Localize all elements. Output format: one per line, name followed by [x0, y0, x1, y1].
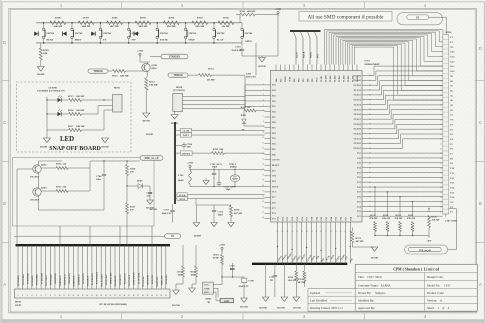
IC U701 top pins: [276, 65, 359, 83]
svg-text:TXD: TXD: [246, 74, 251, 76]
svg-text:D702: D702: [137, 180, 143, 183]
wire drops: bus to MT03 with net labels: [18, 245, 168, 289]
svg-text:PLD17: PLD17: [354, 118, 362, 121]
svg-text:SNAP OFF BOARD: SNAP OFF BOARD: [49, 146, 101, 152]
svg-text:CPM ( Shenzhen ) Li mi t ed: CPM ( Shenzhen ) Li mi t ed: [393, 268, 440, 272]
connector M705: [103, 86, 122, 112]
svg-text:INT: INT: [317, 53, 319, 58]
svg-text:Title: C017 MCU: Title: C017 MCU: [358, 275, 383, 279]
svg-text:A: A: [3, 282, 6, 287]
svg-text:P51: P51: [278, 217, 280, 220]
svg-text:28: 28: [142, 295, 144, 297]
wire KBD collector rail: [17, 161, 140, 226]
svg-text:560 MF: 560 MF: [76, 109, 85, 112]
svg-text:13G: 13G: [450, 56, 454, 59]
node TRIG/IN pill (right): [168, 73, 188, 77]
wire/net INT: [315, 32, 320, 65]
resistor R707 6K8 MF: [78, 17, 94, 29]
svg-text:SW703: SW703: [188, 32, 196, 35]
svg-text:SQSO: SQSO: [310, 52, 312, 58]
diode (key matrix) D704: [63, 32, 67, 36]
svg-text:PLD13: PLD13: [354, 99, 362, 102]
bus bar (VFD signals): [252, 263, 347, 265]
power +5VD (top): [275, 8, 281, 56]
ground DGND (MT03 right): [172, 284, 180, 307]
resistor R702 1K MF: [218, 17, 234, 29]
svg-text:SW706: SW706: [103, 32, 111, 35]
svg-text:IRINLINE: IRINLINE: [157, 276, 159, 287]
svg-text:11G: 11G: [450, 65, 454, 68]
sub-board outline (KBD): [13, 158, 155, 227]
svg-text:GRID5SEG: GRID5SEG: [74, 275, 76, 286]
IC U701 M38K07M8FP body: [271, 71, 363, 223]
svg-text:SENS: SENS: [179, 198, 186, 201]
svg-text:47K MF: 47K MF: [370, 218, 379, 220]
svg-text:R715: R715: [68, 95, 74, 98]
svg-text:7: 7: [263, 116, 264, 118]
svg-text:L701: L701: [178, 174, 184, 177]
svg-text:DGND: DGND: [293, 307, 301, 310]
svg-text:SW702: SW702: [217, 32, 225, 35]
wire Q703 emitter to rail: [39, 185, 104, 210]
svg-text:4: 4: [441, 51, 442, 53]
svg-text:KBD_on_off: KBD_on_off: [145, 157, 159, 160]
svg-text:29: 29: [440, 173, 442, 175]
svg-text:XLAT: XLAT: [295, 51, 298, 58]
svg-text:1: 1: [18, 295, 19, 297]
svg-text:25: 25: [128, 295, 130, 297]
svg-text:2: 2: [441, 42, 442, 44]
svg-text:PLD21: PLD21: [354, 137, 362, 140]
svg-text:8: 8: [263, 121, 264, 123]
svg-text:R710: R710: [214, 255, 220, 257]
capacitor C107 1NFD: [445, 214, 457, 223]
transistor Q702 2SC2859: [30, 164, 47, 179]
svg-text:37: 37: [325, 231, 327, 233]
svg-text:GNDPOWER: GNDPOWER: [134, 272, 136, 285]
svg-text:VCC: VCC: [317, 77, 319, 82]
svg-text:TRIG/IN: TRIG/IN: [173, 74, 182, 77]
capacitor C710 22u: [147, 186, 153, 200]
svg-text:IR: IR: [208, 301, 211, 304]
svg-text:PLD16: PLD16: [354, 113, 362, 116]
title block table: [308, 264, 477, 311]
svg-text:VFD5GRID: VFD5GRID: [37, 274, 39, 286]
svg-text:4K7 MF: 4K7 MF: [110, 25, 119, 28]
resistor R729 100K: [191, 245, 198, 284]
svg-text:M38K07M8FP: M38K07M8FP: [365, 63, 381, 66]
svg-text:39pF: 39pF: [212, 166, 218, 169]
wire fan: IC right pins to MT01: [368, 66, 443, 216]
svg-text:RESET: RESET: [272, 164, 280, 167]
svg-text:P86: P86: [308, 79, 310, 82]
svg-text:FF: FF: [103, 38, 107, 41]
svg-text:BLCKLGHT: BLCKLGHT: [101, 274, 103, 287]
svg-text:DGND: DGND: [371, 257, 379, 260]
svg-text:STANDBY: STANDBY: [169, 56, 181, 59]
svg-text:1K MF: 1K MF: [222, 25, 230, 28]
label LED SNAP OFF BOARD: [49, 136, 101, 152]
capacitor C706 10N: [175, 142, 193, 148]
svg-text:R716: R716: [68, 109, 74, 112]
svg-text:34: 34: [440, 197, 442, 199]
svg-text:+5VD: +5VD: [187, 162, 193, 165]
svg-text:-30V: -30V: [427, 240, 432, 243]
svg-text:Approved By:: Approved By:: [358, 306, 375, 310]
resistor R714 10K MF: [145, 76, 159, 113]
svg-text:SW701: SW701: [245, 32, 253, 35]
svg-text:5: 5: [441, 56, 442, 58]
node IRIN label: [220, 298, 233, 303]
power +5VD (osc): [187, 162, 193, 171]
wire drops: IC bottom pins to bus: [277, 228, 354, 264]
wire STANDBY to Q701: [150, 56, 161, 58]
svg-text:P61: P61: [294, 79, 296, 82]
svg-text:NF: NF: [242, 129, 246, 132]
svg-text:30: 30: [291, 231, 293, 233]
svg-text:34: 34: [311, 231, 313, 233]
svg-text:12: 12: [68, 295, 70, 297]
svg-text:PLD02: PLD02: [335, 76, 337, 82]
svg-text:PLD07: PLD07: [357, 75, 359, 82]
resistor R706 4K7 MF: [107, 17, 123, 29]
svg-text:4K7 MF: 4K7 MF: [356, 241, 365, 243]
svg-text:C: C: [3, 120, 6, 125]
svg-text:PLD19: PLD19: [354, 128, 362, 131]
svg-text:C715: C715: [269, 277, 275, 279]
ground DGND (C710): [146, 200, 154, 210]
switch SW706 FF: [99, 22, 111, 44]
switch SW706 NEXT: [42, 22, 54, 44]
svg-text:GRID3SEG: GRID3SEG: [64, 274, 66, 285]
svg-text:Design Code:: Design Code:: [427, 275, 444, 279]
connector M704 (TO M705): [173, 86, 185, 111]
wire drops below bus to grounds: [266, 264, 297, 297]
svg-text:1: 1: [441, 37, 442, 39]
transistor Q703 2SC2859: [30, 187, 47, 202]
svg-text:NC: NC: [450, 119, 454, 122]
svg-text:P53: P53: [287, 217, 289, 220]
resistor R720 4K7 MF: [196, 199, 243, 223]
svg-text:5: 5: [36, 295, 37, 297]
svg-text:P60: P60: [299, 79, 301, 82]
LED snap-off board (dashed outline): [17, 82, 132, 152]
svg-text:SQCK: SQCK: [303, 51, 305, 58]
svg-text:4MHZ: 4MHZ: [230, 166, 237, 169]
svg-text:32: 32: [160, 295, 162, 297]
node P1 oval (net flag): [397, 13, 446, 35]
svg-text:Sheet: 1 of 4: Sheet: 1 of 4: [427, 306, 449, 310]
svg-text:R723: R723: [383, 215, 389, 217]
svg-text:21: 21: [110, 295, 112, 297]
resistor R704 2K2 MF: [163, 17, 179, 29]
ground DGND (R709): [37, 67, 44, 77]
svg-text:17: 17: [262, 169, 264, 171]
svg-text:PLD11: PLD11: [354, 89, 362, 92]
title block row: Approved By / Sheet 1 of 4: [358, 306, 449, 310]
svg-text:Last Modified: Last Modified: [310, 299, 328, 303]
svg-text:9: 9: [263, 126, 264, 128]
svg-text:IRIN: IRIN: [224, 301, 229, 303]
svg-text:XIN: XIN: [272, 180, 277, 183]
svg-text:25: 25: [440, 153, 442, 155]
resistor R719 3K3 MF: [288, 271, 298, 297]
svg-text:GRID1SEG: GRID1SEG: [55, 273, 57, 284]
svg-text:PLD15: PLD15: [354, 108, 362, 111]
svg-text:P20: P20: [350, 217, 352, 220]
svg-text:27: 27: [440, 163, 442, 165]
diode (key matrix) D705: [91, 32, 95, 36]
svg-text:14: 14: [77, 295, 79, 297]
svg-text:RESET: RESET: [182, 152, 191, 155]
svg-text:R706: R706: [112, 17, 118, 20]
svg-text:PLD10: PLD10: [354, 84, 362, 87]
svg-text:STOP: STOP: [188, 38, 195, 41]
svg-text:VFD3GRID: VFD3GRID: [27, 273, 29, 285]
resistor R730 470: [126, 160, 137, 183]
resistor R731 470: [126, 183, 137, 226]
svg-text:DATA1SIG: DATA1SIG: [142, 276, 145, 287]
node bus bar (XLAT group): [290, 30, 321, 32]
svg-text:SEG11OUT: SEG11OUT: [124, 273, 126, 285]
svg-text:29: 29: [146, 295, 148, 297]
resistor R711 080: [200, 148, 265, 155]
svg-text:AVSS: AVSS: [289, 76, 292, 82]
svg-text:10: 10: [262, 132, 264, 134]
switch SW702 PLAY: [213, 22, 225, 44]
wire M704 pins to IC: [183, 97, 265, 109]
diode D702: [127, 180, 150, 189]
svg-text:28: 28: [282, 231, 284, 233]
svg-text:R713: R713: [112, 75, 118, 78]
svg-text:P11: P11: [316, 217, 318, 220]
svg-text:14: 14: [262, 153, 264, 155]
svg-text:28: 28: [440, 168, 442, 170]
node P1 pill (bottom): [165, 234, 181, 239]
zone tick marks left/right: [2, 81, 484, 243]
svg-text:STANDBY & POWER-ON: STANDBY & POWER-ON: [37, 90, 65, 93]
svg-text:11: 11: [63, 295, 65, 297]
svg-text:DGND: DGND: [194, 234, 201, 237]
svg-text:1G: 1G: [450, 114, 453, 117]
svg-text:VCC5VOLT: VCC5VOLT: [129, 274, 131, 286]
capacitor C713 10uF/6.3V: [162, 204, 175, 223]
svg-text:RSTLINE: RSTLINE: [152, 274, 154, 284]
svg-text:9: 9: [55, 295, 56, 297]
ground DGND + wire row y232: [14, 223, 201, 238]
svg-text:2K2 MF: 2K2 MF: [167, 25, 176, 28]
svg-text:12: 12: [262, 142, 264, 144]
zone letters right: [479, 46, 482, 287]
svg-text:All use SMD component if possi: All use SMD component if possible: [307, 14, 384, 21]
svg-text:DGND: DGND: [146, 207, 154, 210]
svg-text:NC: NC: [450, 201, 454, 204]
ground DGND (M704): [171, 111, 178, 125]
svg-text:D: D: [479, 46, 482, 51]
svg-text:31: 31: [296, 231, 298, 233]
svg-text:P13: P13: [326, 217, 328, 220]
svg-text:27: 27: [277, 231, 279, 233]
svg-text:30: 30: [151, 295, 153, 297]
resistor R701 683 MF: [236, 10, 278, 23]
svg-text:47K MF: 47K MF: [395, 218, 404, 220]
svg-text:P56: P56: [302, 217, 304, 220]
svg-text:VREF: VREF: [285, 75, 287, 82]
svg-text:1K5 MF: 1K5 MF: [195, 25, 204, 28]
svg-text:P12: P12: [321, 217, 323, 220]
svg-text:36: 36: [320, 231, 322, 233]
svg-text:20: 20: [262, 185, 264, 187]
svg-text:GRID4SEG: GRID4SEG: [69, 273, 71, 284]
svg-text:VFD8GRID: VFD8GRID: [51, 274, 53, 286]
capacitor C708 47uF/6.3V: [221, 276, 254, 298]
svg-text:2G: 2G: [450, 109, 453, 112]
svg-text:FW: FW: [132, 38, 137, 41]
svg-text:SCLK: SCLK: [179, 194, 186, 197]
resistor R703 1K5 MF: [192, 17, 208, 29]
IC U701 bottom pins: [278, 216, 353, 227]
wire: key matrix bottom rail: [36, 42, 242, 44]
svg-text:11: 11: [262, 137, 264, 139]
svg-text:VCC: VCC: [204, 284, 209, 287]
svg-text:PLD04: PLD04: [344, 75, 346, 82]
power +5VD (IR): [219, 244, 225, 254]
svg-text:16: 16: [262, 164, 264, 166]
svg-text:47K MF: 47K MF: [432, 220, 441, 222]
svg-text:DGND: DGND: [143, 120, 150, 123]
svg-text:10K MF: 10K MF: [120, 75, 129, 78]
svg-text:R707: R707: [83, 17, 89, 20]
svg-text:8050: 8050: [152, 67, 158, 70]
svg-text:3K3 MF: 3K3 MF: [298, 282, 307, 284]
LED D702 symbol: [58, 109, 63, 116]
net label SENS: [175, 197, 265, 201]
svg-text:R708: R708: [55, 17, 61, 20]
svg-text:21: 21: [262, 190, 264, 192]
ground DGND (LED board left): [40, 136, 51, 149]
svg-text:SEG10OUT: SEG10OUT: [120, 274, 122, 286]
svg-text:TRIG/IN: TRIG/IN: [93, 70, 102, 73]
ground DGND (R714): [143, 113, 150, 123]
svg-text:LED: LED: [60, 136, 74, 143]
switch SW701 / OPEN: [241, 23, 253, 46]
svg-text:MT01: MT01: [446, 32, 453, 34]
svg-text:DATA/TO: DATA/TO: [246, 76, 256, 79]
svg-text:30: 30: [440, 177, 442, 179]
svg-text:VFD_on_off: VFD_on_off: [419, 250, 431, 252]
resistors R722-R725 47K MF: [370, 186, 430, 236]
svg-text:32: 32: [440, 187, 442, 189]
svg-text:GRID2SEG: GRID2SEG: [60, 275, 62, 286]
svg-text:SEG12KEY: SEG12KEY: [83, 273, 85, 285]
svg-text:35: 35: [440, 202, 442, 204]
svg-text:DGND: DGND: [146, 133, 153, 136]
zone letters left: [3, 40, 6, 287]
node STANDBY pill: [161, 54, 188, 59]
svg-text:R701 683 MF: R701 683 MF: [240, 10, 256, 13]
bus bar (MT03): [16, 244, 171, 246]
resistor R709 10K: [39, 43, 49, 67]
svg-text:C713: C713: [164, 209, 170, 212]
svg-text:CE01LINE: CE01LINE: [148, 274, 150, 285]
svg-text:SEG19OUT: SEG19OUT: [115, 275, 117, 287]
svg-text:19: 19: [100, 295, 102, 297]
net label SCLK: [175, 193, 265, 197]
svg-text:PLAY: PLAY: [217, 38, 224, 41]
title block row: Customer Name ALPHA / Model No C017: [358, 283, 451, 287]
svg-text:PLD05: PLD05: [348, 76, 350, 82]
svg-text:10: 10: [59, 295, 61, 297]
resistor R712 1K MF: [188, 68, 245, 82]
svg-text:Drawn By: Samy.ho: Drawn By: Samy.ho: [358, 291, 386, 295]
svg-text:23: 23: [119, 295, 121, 297]
svg-text:CLOK: CLOK: [183, 131, 190, 133]
svg-text:C: C: [479, 120, 482, 125]
svg-text:+5VD: +5VD: [275, 8, 281, 11]
svg-text:DGND: DGND: [240, 306, 248, 309]
ground (osc): [203, 178, 209, 185]
svg-text:15: 15: [262, 158, 264, 160]
svg-text:22: 22: [114, 295, 116, 297]
svg-text:VSS: VSS: [272, 175, 277, 178]
svg-text:10uF/6.3V: 10uF/6.3V: [162, 213, 172, 215]
svg-text:27: 27: [137, 295, 139, 297]
svg-text:7G: 7G: [450, 85, 453, 88]
svg-text:P10: P10: [311, 217, 313, 220]
svg-text:NC: NC: [450, 46, 454, 49]
svg-text:R721: R721: [356, 237, 362, 240]
svg-text:10G: 10G: [450, 70, 454, 73]
svg-text:10 MF: 10 MF: [213, 258, 220, 260]
svg-text:PLD00: PLD00: [326, 76, 328, 82]
svg-text:PLD01: PLD01: [330, 76, 332, 82]
svg-text:41: 41: [345, 231, 347, 233]
svg-text:3K3 MF: 3K3 MF: [139, 25, 148, 28]
svg-text:DGND: DGND: [172, 304, 180, 307]
svg-text:DGND: DGND: [40, 146, 47, 149]
svg-text:R720: R720: [234, 209, 240, 212]
svg-text:CNVSS: CNVSS: [272, 159, 281, 162]
capacitor C704 100n: [96, 160, 106, 185]
svg-text:R726: R726: [432, 217, 438, 219]
svg-text:C708: C708: [249, 281, 255, 283]
svg-text:19: 19: [262, 180, 264, 182]
svg-text:10K MF: 10K MF: [76, 125, 85, 128]
svg-text:VFD6GRID: VFD6GRID: [41, 273, 43, 285]
svg-text:DGND: DGND: [101, 146, 108, 149]
svg-text:C107 1NFD: C107 1NFD: [445, 220, 457, 223]
svg-text:12G: 12G: [450, 60, 454, 63]
wire IC-left misc rows: [245, 43, 265, 109]
svg-text:B: B: [3, 201, 6, 206]
svg-text:31: 31: [440, 182, 442, 184]
switch SW703 STOP: [184, 22, 196, 44]
svg-text:560 MF: 560 MF: [76, 95, 85, 98]
grounds DGND x3 (VFD bus): [259, 297, 301, 310]
title block sub rows: Updated / Last Modified / Drawing Created: [310, 291, 352, 310]
connector MT01: [440, 32, 455, 214]
capacitor C714 100N: [212, 205, 224, 223]
svg-text:Customer Name: ALPHA: Customer Name: ALPHA: [358, 283, 391, 287]
ground DGND (R721): [371, 247, 379, 260]
svg-text:DGND: DGND: [37, 73, 44, 76]
resistor R705 3K3 MF: [135, 17, 151, 29]
svg-text:GND: GND: [204, 287, 210, 290]
svg-text:CLOCKSIG: CLOCKSIG: [138, 272, 140, 284]
svg-text:1K MF: 1K MF: [207, 79, 215, 82]
svg-text:+5VD: +5VD: [219, 244, 225, 247]
svg-text:23: 23: [262, 201, 264, 203]
